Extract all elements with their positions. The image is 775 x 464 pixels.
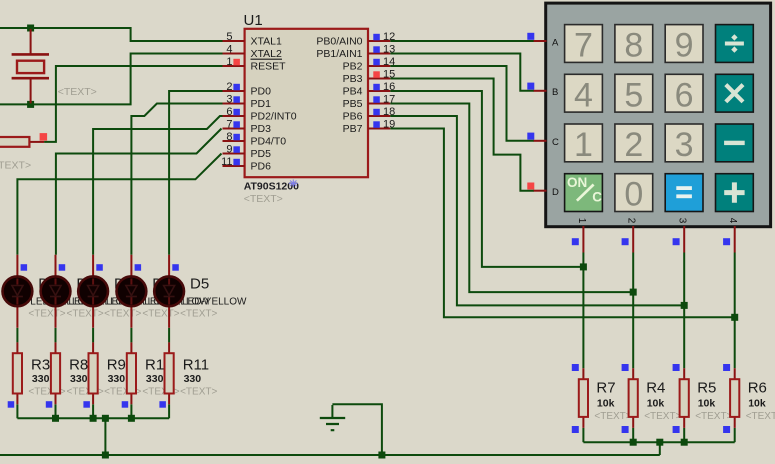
svg-text:3: 3	[677, 218, 688, 224]
svg-text:8: 8	[226, 131, 232, 143]
svg-text:U1: U1	[244, 12, 263, 29]
svg-text:PB4: PB4	[343, 86, 363, 98]
U1 pin 5 (XTAL1) stub	[223, 40, 245, 42]
wire net PB0 to keypad row A	[390, 40, 534, 42]
logic probe square at U1 pin 15 (red)	[373, 71, 380, 78]
wire resistor bottom to LED bus, column 5	[168, 404, 170, 418]
svg-text:6: 6	[675, 76, 694, 114]
svg-text:1: 1	[574, 126, 593, 164]
svg-text:330: 330	[108, 373, 126, 385]
svg-text:8: 8	[624, 27, 643, 65]
svg-text:9: 9	[226, 144, 232, 156]
LED D3	[78, 255, 108, 328]
svg-text:R3: R3	[31, 357, 50, 374]
logic probe square keypad row D (red)	[527, 183, 534, 190]
svg-text:14: 14	[383, 56, 395, 68]
svg-text:10k: 10k	[748, 398, 766, 410]
svg-text:10k: 10k	[597, 398, 615, 410]
svg-text:<TEXT>: <TEXT>	[180, 309, 217, 320]
LED D5	[154, 255, 184, 328]
U1 pin 17 (PB5) stub	[368, 103, 390, 105]
svg-text:<TEXT>: <TEXT>	[594, 411, 631, 422]
keypad row B pin stub	[534, 90, 547, 92]
RESET overbar	[251, 58, 283, 60]
wire pullup resistor 3 bottom to bus	[683, 428, 685, 442]
logic probe square above resistor R5 (blue)	[673, 364, 680, 371]
svg-text:330: 330	[32, 373, 50, 385]
svg-text:5: 5	[624, 76, 643, 114]
resistor R2 (horizontal, left edge)	[0, 137, 44, 147]
svg-text:<TEXT>: <TEXT>	[695, 411, 732, 422]
logic probe square at LED D1 anode (blue)	[21, 264, 28, 271]
logic probe square below resistor R11 (blue)	[159, 401, 166, 408]
svg-text:<TEXT>: <TEXT>	[142, 309, 179, 320]
wire LED D1 cathode to resistor	[16, 328, 18, 343]
svg-text:PD6: PD6	[251, 161, 272, 173]
junction main bus / LED bus drop	[102, 452, 109, 459]
svg-text:PB0/AIN0: PB0/AIN0	[316, 36, 362, 48]
resistor R8 (330)	[51, 342, 60, 404]
wire net PD5 to LED D1	[17, 154, 221, 255]
U1 pin 2 (PD0) stub	[223, 90, 245, 92]
svg-text:R7: R7	[596, 380, 615, 397]
svg-text:<TEXT>: <TEXT>	[180, 387, 217, 398]
LED D1	[3, 255, 33, 328]
keypad button 1	[565, 124, 603, 164]
wire keypad column 4 down to pullup resistor	[734, 253, 736, 369]
svg-text:13: 13	[383, 44, 395, 56]
wire net PB7 to keypad column 4	[390, 129, 735, 318]
svg-text:7: 7	[574, 27, 593, 65]
svg-text:12: 12	[383, 31, 395, 43]
logic probe square at U1 pin 6 (blue)	[233, 109, 240, 116]
LED D2	[41, 255, 71, 328]
resistor R5 (10k)	[680, 368, 689, 428]
junction PB5 / column 2	[630, 289, 637, 296]
junction crystal bottom node	[27, 101, 34, 108]
wire keypad column 1 down to pullup resistor	[582, 253, 584, 369]
svg-text:PD5: PD5	[251, 148, 272, 160]
svg-text:4: 4	[727, 218, 738, 224]
junction pullup bus R5	[681, 439, 688, 446]
junction LED bus R10	[128, 415, 135, 422]
keypad column 2 pin stub	[632, 226, 634, 253]
logic probe square below resistor R10 (blue)	[122, 401, 129, 408]
wire net XTAL1: crystal top to U1 pin 5	[0, 28, 223, 41]
LED D4	[116, 255, 146, 328]
logic probe square below resistor R5 (blue)	[673, 426, 680, 433]
wire LED D5 cathode to resistor	[168, 328, 170, 343]
svg-text:PB7: PB7	[343, 123, 363, 135]
keypad button plus	[716, 174, 754, 212]
wire LED D2 cathode to resistor	[55, 328, 57, 343]
svg-text:PB3: PB3	[343, 73, 363, 85]
U1 pin 13 (PB1/AIN1) stub	[368, 53, 390, 55]
svg-text:330: 330	[146, 373, 164, 385]
logic probe square at U1 pin 7 (blue)	[233, 121, 240, 128]
logic probe square keypad column 2 (blue)	[622, 238, 629, 245]
keypad button 3	[665, 124, 703, 164]
U1 pin 8 (PD4/T0) stub	[223, 140, 245, 142]
junction LED bus R9	[90, 415, 97, 422]
keypad button mul	[716, 74, 754, 112]
logic probe square below resistor R4 (blue)	[622, 426, 629, 433]
svg-text:LED-YELLOW: LED-YELLOW	[182, 297, 247, 308]
logic probe square at U1 pin 8 (blue)	[233, 134, 240, 141]
svg-text:<TEXT>: <TEXT>	[67, 309, 104, 320]
keypad button 7	[565, 25, 603, 65]
svg-text:3: 3	[675, 126, 694, 164]
U1 pin 16 (PB4) stub	[368, 90, 390, 92]
wire net PB3 to keypad row D	[390, 79, 534, 191]
resistor R4 (10k)	[629, 368, 638, 428]
logic probe square at U1 pin 16 (blue)	[373, 84, 380, 91]
logic probe square keypad column 4 (blue)	[723, 238, 730, 245]
svg-text:19: 19	[383, 119, 395, 131]
wire LED D3 cathode to resistor	[92, 328, 94, 343]
logic probe square below resistor R8 (blue)	[46, 401, 53, 408]
svg-text:4: 4	[226, 44, 232, 56]
wire keypad column 2 down to pullup resistor	[632, 253, 634, 369]
logic probe square at U1 pin 11 (blue)	[233, 159, 240, 166]
wire pullup resistor 1 bottom to bus	[582, 428, 584, 442]
logic probe square keypad row C (blue)	[527, 133, 534, 140]
keypad button 5	[615, 74, 653, 114]
logic probe square at LED D2 anode (blue)	[59, 264, 65, 271]
logic probe square below resistor R7 (blue)	[572, 426, 579, 433]
svg-text:R9: R9	[107, 357, 126, 374]
wire net PB4 to keypad column 1	[390, 91, 583, 267]
svg-text:<TEXT>: <TEXT>	[244, 193, 283, 205]
svg-text:B: B	[552, 87, 558, 98]
svg-text:2: 2	[624, 126, 643, 164]
U1 pin 18 (PB6) stub	[368, 115, 390, 117]
wire net PB1 to keypad row B	[390, 54, 534, 91]
junction crystal top node	[27, 25, 34, 32]
keypad KP1 body	[546, 3, 771, 227]
logic probe square above resistor R7 (blue)	[572, 364, 579, 371]
U1 pin 11 (PD6) stub	[223, 165, 245, 167]
svg-text:R11: R11	[183, 357, 209, 374]
svg-text:3: 3	[226, 94, 232, 106]
svg-text:15: 15	[383, 69, 395, 81]
svg-text:PB1/AIN1: PB1/AIN1	[316, 48, 362, 60]
U1 pin 4 (XTAL2) stub	[223, 53, 245, 55]
logic probe square keypad column 1 (blue)	[572, 238, 579, 245]
svg-text:<TEXT>: <TEXT>	[104, 309, 141, 320]
svg-text:1: 1	[226, 56, 232, 68]
wire resistor bottom to LED bus, column 4	[130, 404, 132, 418]
svg-text:AT90S1200: AT90S1200	[244, 180, 299, 192]
logic probe square at U1 pin 18 (blue)	[373, 109, 380, 116]
logic probe square below resistor R3 (blue)	[8, 401, 15, 408]
wire net PD1 to LED D4	[131, 104, 222, 255]
junction PB4 / column 1	[580, 263, 587, 270]
svg-text:<TEXT>: <TEXT>	[0, 160, 31, 172]
wire LED bus drop to main ground bus	[104, 418, 106, 455]
svg-text:<TEXT>: <TEXT>	[644, 411, 681, 422]
svg-text:PD4/T0: PD4/T0	[251, 136, 287, 148]
wire LED ground bus	[17, 417, 169, 419]
wire main ground bus	[0, 454, 660, 456]
svg-text:PB5: PB5	[343, 98, 363, 110]
logic probe square at U1 pin 19 (blue)	[373, 121, 380, 128]
junction LED bus R8	[52, 415, 59, 422]
keypad button minus	[716, 124, 754, 162]
logic probe square at LED D5 anode (blue)	[172, 264, 179, 271]
svg-text:XTAL2: XTAL2	[251, 48, 282, 60]
logic probe square at LED D3 anode (blue)	[96, 264, 103, 271]
wire resistor bottom to LED bus, column 1	[16, 404, 18, 418]
logic probe square above resistor R6 (blue)	[723, 364, 730, 371]
wire pullup resistor 2 bottom to bus	[632, 428, 634, 442]
ground	[320, 405, 345, 430]
svg-text:<TEXT>: <TEXT>	[746, 411, 775, 422]
svg-text:D5: D5	[190, 276, 209, 293]
resistor R7 (10k)	[579, 368, 588, 428]
svg-text:PD0: PD0	[251, 86, 272, 98]
U1 pin 9 (PD5) stub	[223, 153, 245, 155]
resistor R10 (330)	[127, 342, 136, 404]
logic probe square at U1 pin 2 (blue)	[233, 84, 240, 91]
svg-text:10k: 10k	[647, 398, 665, 410]
keypad row A pin stub	[534, 40, 547, 42]
svg-text:330: 330	[70, 373, 88, 385]
U1 pin 19 (PB7) stub	[368, 128, 390, 130]
svg-text:10k: 10k	[698, 398, 716, 410]
keypad button div	[716, 25, 754, 63]
U1 pin 14 (PB2) stub	[368, 65, 390, 67]
logic probe square at LED D4 anode (blue)	[135, 264, 142, 271]
wire resistor bottom to LED bus, column 3	[92, 404, 94, 418]
svg-text:<TEXT>: <TEXT>	[58, 86, 97, 98]
svg-text:R8: R8	[69, 357, 88, 374]
wire net PD2 to LED D3	[93, 116, 222, 255]
svg-text:C: C	[552, 137, 559, 148]
U1 pin 6 (PD2/INT0) stub	[223, 115, 245, 117]
small blue marker at U1 bottom	[289, 180, 298, 188]
wire pullup resistor 4 bottom to bus	[734, 428, 736, 442]
junction pullup bus drop	[656, 439, 663, 446]
wire pullup resistor ground bus	[583, 441, 734, 443]
keypad button 9	[665, 25, 703, 65]
logic probe square at U1 pin 13 (blue)	[373, 46, 380, 53]
wire net RESET: resistor R2 to U1 pin 1	[44, 66, 222, 142]
svg-text:R5: R5	[697, 380, 716, 397]
svg-text:PD2/INT0: PD2/INT0	[251, 111, 297, 123]
logic probe square above resistor R4 (blue)	[622, 364, 629, 371]
keypad column 1 pin stub	[582, 226, 584, 253]
crystal X1	[12, 29, 49, 103]
logic probe square at U1 pin 14 (blue)	[373, 59, 380, 66]
svg-text:11: 11	[221, 156, 232, 168]
wire net PD3 to LED D2	[56, 129, 222, 255]
U1 pin 12 (PB0/AIN0) stub	[368, 40, 390, 42]
svg-text:9: 9	[675, 27, 694, 65]
resistor R6 (10k)	[730, 368, 739, 428]
junction main bus / ground	[378, 452, 385, 459]
junction LED bus drop	[102, 415, 109, 422]
U1 pin 15 (PB3) stub	[368, 78, 390, 80]
svg-text:4: 4	[574, 76, 593, 114]
svg-text:330: 330	[184, 373, 202, 385]
svg-text:D: D	[552, 187, 559, 198]
keypad button 4	[565, 74, 603, 114]
wire resistor bottom to LED bus, column 2	[55, 404, 57, 418]
svg-text:<TEXT>: <TEXT>	[28, 309, 65, 320]
wire net PD0 to LED D5	[169, 91, 222, 255]
logic probe square keypad column 3 (blue)	[673, 238, 680, 245]
keypad button 2	[615, 124, 653, 164]
keypad column 3 pin stub	[683, 226, 685, 253]
svg-text:6: 6	[226, 106, 232, 118]
junction PB6 / column 3	[681, 302, 688, 309]
logic probe square keypad row A (blue)	[527, 33, 534, 40]
resistor R3 (330)	[13, 342, 22, 404]
U1 pin 1 (RESET) stub	[223, 65, 245, 67]
U1 pin 3 (PD1) stub	[223, 103, 245, 105]
wire pullup bus drop to main ground bus	[659, 442, 661, 455]
voltage probe square at R2 output (red)	[40, 133, 48, 141]
keypad button equals	[665, 174, 703, 212]
svg-text:A: A	[552, 37, 559, 48]
keypad button ON/C	[565, 174, 603, 212]
svg-text:16: 16	[383, 81, 395, 93]
resistor R9 (330)	[89, 342, 98, 404]
svg-text:RESET: RESET	[251, 61, 287, 73]
svg-text:5: 5	[226, 31, 232, 43]
svg-text:R4: R4	[646, 380, 665, 397]
svg-text:PD1: PD1	[251, 98, 272, 110]
svg-text:7: 7	[226, 119, 232, 131]
svg-text:18: 18	[383, 106, 395, 118]
junction pullup bus R4	[630, 439, 637, 446]
op-amp U1 body: AT90S1200 microcontroller box	[245, 29, 368, 177]
keypad row C pin stub	[534, 140, 547, 142]
svg-text:PB6: PB6	[343, 111, 363, 123]
wire keypad column 3 down to pullup resistor	[683, 253, 685, 369]
svg-text:17: 17	[383, 94, 395, 106]
keypad row D pin stub	[534, 190, 547, 192]
wire ground branch	[332, 404, 382, 455]
svg-text:PB2: PB2	[343, 61, 363, 73]
wire LED D4 cathode to resistor	[130, 328, 132, 343]
U1 pin 7 (PD3) stub	[223, 128, 245, 130]
logic probe square at U1 pin 12 (blue)	[373, 34, 380, 41]
wire net XTAL2: crystal bottom to U1 pin 4	[0, 54, 223, 105]
wire net PB2 to keypad row C	[390, 66, 534, 141]
svg-text:0: 0	[624, 176, 643, 214]
logic probe square at U1 pin 3 (blue)	[233, 96, 240, 103]
junction PB7 / column 4	[731, 314, 738, 321]
svg-text:XTAL1: XTAL1	[251, 36, 282, 48]
wire net PB6 to keypad column 3	[390, 116, 684, 305]
svg-text:R6: R6	[748, 380, 767, 397]
logic probe square at U1 pin 17 (blue)	[373, 96, 380, 103]
logic probe square keypad row B (blue)	[527, 83, 534, 90]
logic probe square at U1 pin 9 (blue)	[233, 146, 240, 153]
keypad button 0	[615, 174, 653, 214]
svg-text:ON: ON	[567, 175, 587, 190]
logic probe square below resistor R9 (blue)	[83, 401, 90, 408]
keypad button 6	[665, 74, 703, 114]
svg-text:2: 2	[226, 81, 232, 93]
svg-text:C: C	[592, 190, 602, 205]
wire net PB5 to keypad column 2	[390, 104, 633, 293]
keypad column 4 pin stub	[734, 226, 736, 253]
resistor R11 (330)	[165, 342, 174, 404]
logic probe square at U1 pin 1 (red)	[233, 59, 240, 66]
svg-text:1: 1	[576, 218, 587, 224]
svg-text:PD3: PD3	[251, 123, 272, 135]
logic probe square below resistor R6 (blue)	[723, 426, 730, 433]
keypad button 8	[615, 25, 653, 65]
svg-text:2: 2	[626, 218, 637, 224]
